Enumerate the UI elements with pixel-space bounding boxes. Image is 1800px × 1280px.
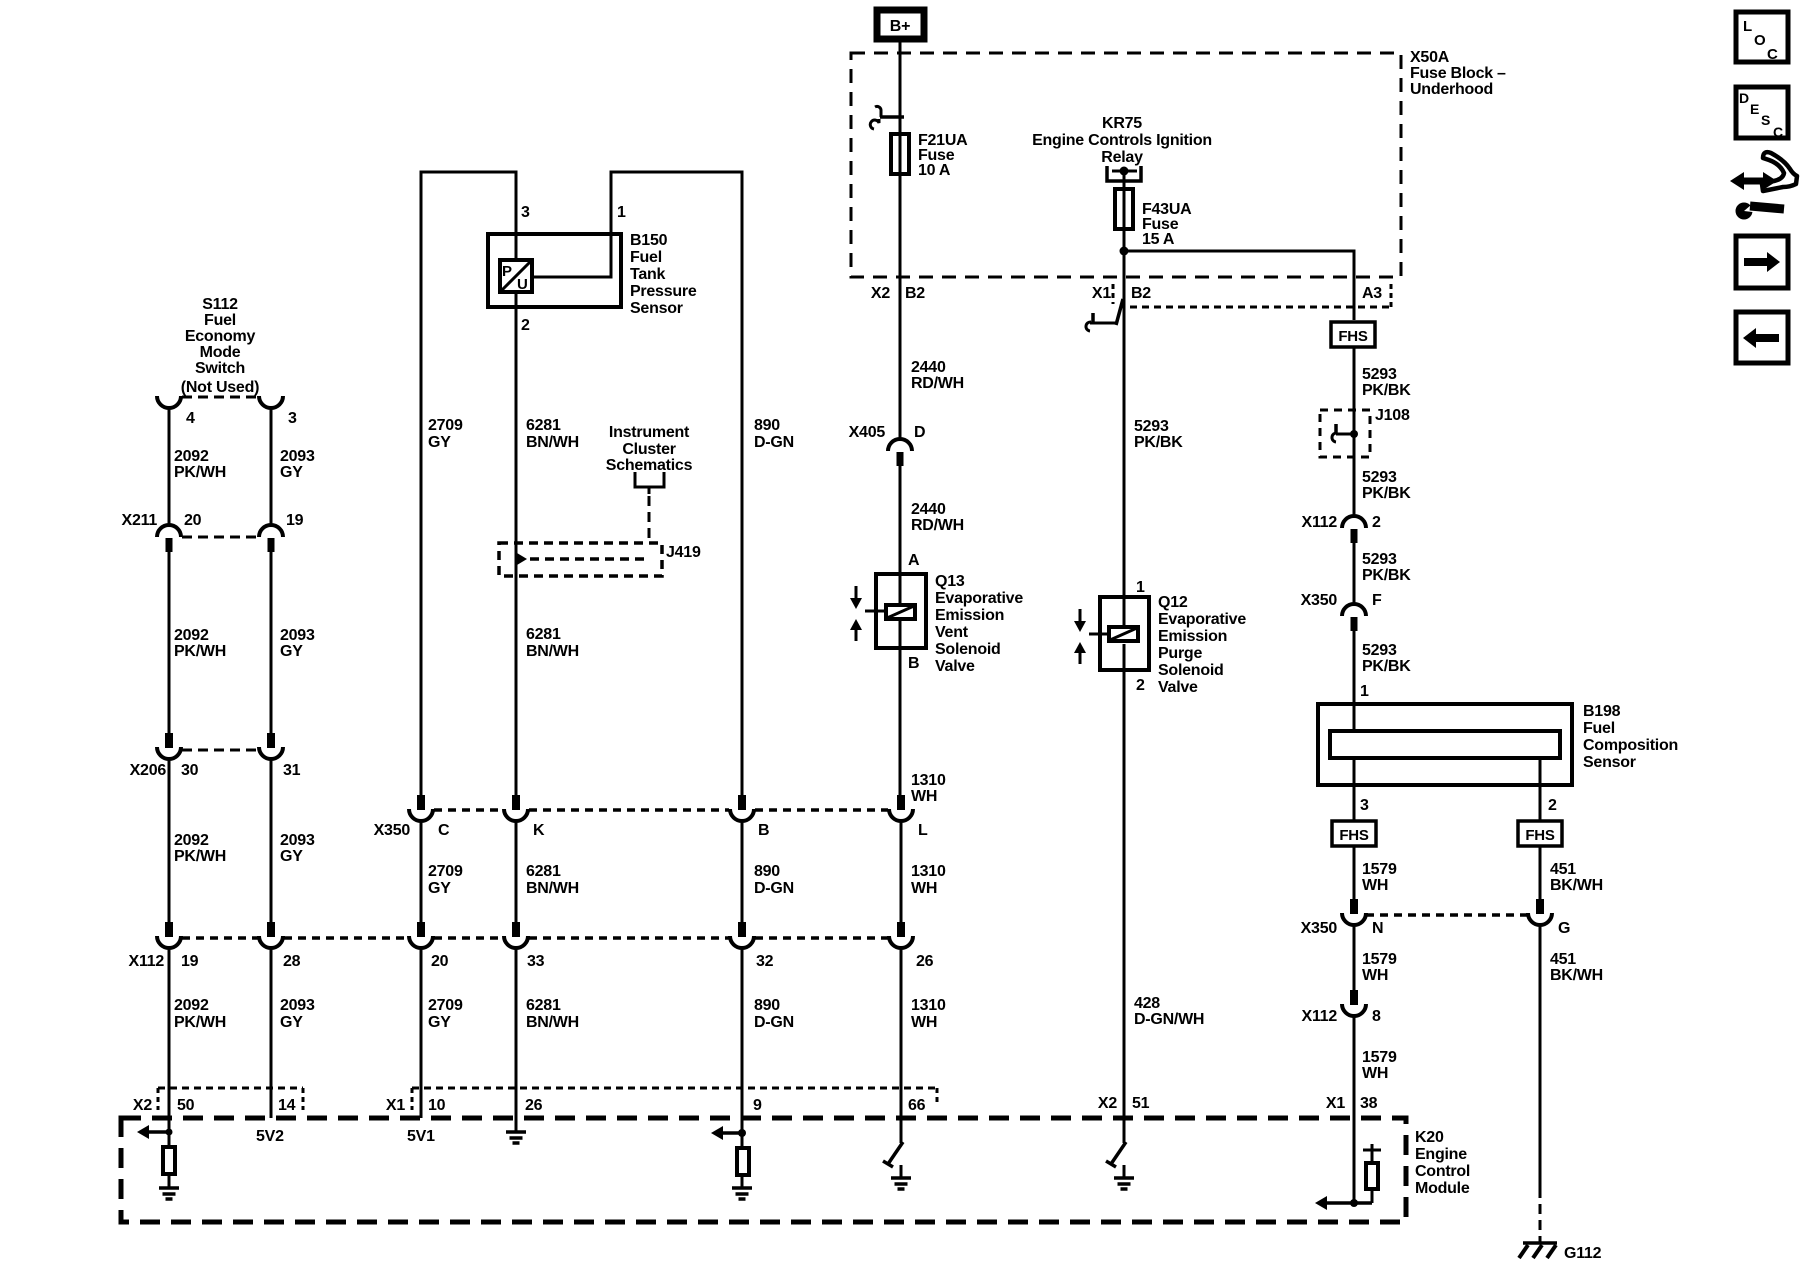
svg-text:GY: GY <box>280 643 303 660</box>
svg-text:Sensor: Sensor <box>1583 754 1636 771</box>
svg-text:BN/WH: BN/WH <box>526 434 579 451</box>
svg-text:10 A: 10 A <box>918 162 951 179</box>
wire 2092 PK/WH seg1 <box>168 408 171 527</box>
connector X206 pin 31 <box>259 733 283 759</box>
wire 6281 BN/WH seg2 <box>515 821 518 922</box>
svg-text:BN/WH: BN/WH <box>526 643 579 660</box>
svg-text:K: K <box>533 822 545 839</box>
wire 2709 GY vertical with top bracket <box>421 172 516 795</box>
connector X112 pin 33 <box>504 922 528 948</box>
svg-text:D: D <box>914 424 925 441</box>
svg-text:Module: Module <box>1415 1180 1470 1197</box>
icon DESC box <box>1736 87 1788 140</box>
svg-text:X112: X112 <box>129 953 165 970</box>
connector X350 pin G <box>1528 899 1552 925</box>
fuse F21UA <box>891 134 909 174</box>
svg-text:WH: WH <box>1362 877 1388 894</box>
connector X206 pin 30 <box>157 733 181 759</box>
svg-text:6281: 6281 <box>526 417 561 434</box>
svg-text:B2: B2 <box>1131 285 1151 302</box>
wire 2092 PK/WH seg2 <box>168 552 171 733</box>
connector X350 pin F <box>1342 604 1366 631</box>
svg-text:L: L <box>918 822 928 839</box>
svg-text:X1: X1 <box>386 1097 405 1114</box>
wire B+ feed <box>899 39 902 174</box>
wire 451 dashed to ground <box>1539 1188 1542 1243</box>
svg-text:A3: A3 <box>1362 285 1382 302</box>
fusible link FHS left box <box>1332 821 1376 846</box>
switch S112 label <box>181 296 259 396</box>
svg-text:1310: 1310 <box>911 997 946 1014</box>
connector X112 row dotted line <box>182 936 888 940</box>
svg-text:2092: 2092 <box>174 448 209 465</box>
svg-text:WH: WH <box>911 1014 937 1031</box>
sensor B150 P/U box <box>500 260 532 293</box>
svg-text:5V1: 5V1 <box>407 1128 435 1145</box>
svg-text:19: 19 <box>286 512 304 529</box>
connector X350 N G dotted line <box>1366 913 1528 917</box>
svg-text:Cluster: Cluster <box>622 441 675 458</box>
connector X350 pin L <box>889 795 913 821</box>
svg-text:C: C <box>1773 124 1783 140</box>
svg-text:1310: 1310 <box>911 772 946 789</box>
svg-text:B: B <box>908 655 919 672</box>
svg-text:Vent: Vent <box>935 624 969 641</box>
wire 451 BK/WH seg1 <box>1539 846 1542 899</box>
connector X350 row dotted line <box>434 808 888 812</box>
svg-text:P: P <box>502 263 512 280</box>
svg-text:X350: X350 <box>374 822 411 839</box>
svg-text:Engine Controls Ignition: Engine Controls Ignition <box>1032 132 1212 149</box>
svg-text:50: 50 <box>177 1097 195 1114</box>
svg-text:890: 890 <box>754 863 780 880</box>
svg-text:Pressure: Pressure <box>630 283 697 300</box>
connector S112 pin 3 <box>259 396 283 408</box>
svg-text:C: C <box>438 822 450 839</box>
sensor B198 outer box <box>1318 704 1572 785</box>
svg-text:PK/BK: PK/BK <box>1362 658 1411 675</box>
svg-text:Economy: Economy <box>185 328 256 345</box>
switch S112 dashed outline <box>182 396 258 399</box>
svg-text:2092: 2092 <box>174 997 209 1014</box>
svg-text:1579: 1579 <box>1362 861 1397 878</box>
svg-text:X211: X211 <box>122 512 158 529</box>
svg-text:10: 10 <box>428 1097 446 1114</box>
svg-text:1579: 1579 <box>1362 951 1397 968</box>
svg-text:1: 1 <box>1360 683 1369 700</box>
svg-text:X2: X2 <box>133 1097 152 1114</box>
svg-text:31: 31 <box>283 762 301 779</box>
svg-text:3: 3 <box>1360 797 1369 814</box>
svg-text:14: 14 <box>278 1097 296 1114</box>
svg-text:X1: X1 <box>1326 1095 1345 1112</box>
ECM pin 26 ground <box>506 1118 526 1143</box>
svg-text:FHS: FHS <box>1525 827 1554 844</box>
connector X112 pin 32 <box>730 922 754 948</box>
svg-text:GY: GY <box>280 1014 303 1031</box>
svg-text:X405: X405 <box>849 424 886 441</box>
icon wiring route with wrench <box>1730 152 1797 219</box>
svg-text:26: 26 <box>916 953 934 970</box>
fuse block strip dotted line <box>1130 306 1390 309</box>
solenoid valve Q13 <box>850 574 926 648</box>
svg-text:26: 26 <box>525 1097 543 1114</box>
svg-text:Fuel: Fuel <box>630 249 662 266</box>
svg-text:X2: X2 <box>871 285 890 302</box>
svg-text:890: 890 <box>754 997 780 1014</box>
connector X112 pin 20 <box>409 922 433 948</box>
svg-text:5293: 5293 <box>1362 551 1397 568</box>
svg-text:PK/BK: PK/BK <box>1362 485 1411 502</box>
svg-text:Instrument: Instrument <box>609 424 690 441</box>
wire 1310 WH seg2 <box>900 821 903 922</box>
svg-text:20: 20 <box>431 953 449 970</box>
svg-text:428: 428 <box>1134 995 1160 1012</box>
connector S112 pin 4 <box>157 396 181 408</box>
svg-text:Fuse Block –: Fuse Block – <box>1410 65 1506 82</box>
svg-text:D-GN: D-GN <box>754 880 794 897</box>
wire branch to A3 <box>1124 251 1354 320</box>
svg-text:890: 890 <box>754 417 780 434</box>
splice J108 symbol <box>1332 424 1358 442</box>
svg-text:B150: B150 <box>630 232 668 249</box>
connector X350 pin N <box>1342 899 1366 925</box>
svg-text:5V2: 5V2 <box>256 1128 284 1145</box>
wire B198 pin 3 <box>1353 758 1356 821</box>
svg-text:PK/BK: PK/BK <box>1134 434 1183 451</box>
svg-text:B: B <box>758 822 769 839</box>
svg-text:32: 32 <box>756 953 774 970</box>
svg-text:RD/WH: RD/WH <box>911 517 964 534</box>
svg-text:X206: X206 <box>130 762 167 779</box>
svg-text:PK/BK: PK/BK <box>1362 382 1411 399</box>
connector X350 pin K <box>504 795 528 821</box>
relay contact at X1 B2 <box>1086 299 1123 331</box>
svg-text:38: 38 <box>1360 1095 1378 1112</box>
connector X112 pin 2 <box>1342 516 1366 543</box>
icon LOC box <box>1736 12 1788 63</box>
icon forward arrow box <box>1736 236 1788 288</box>
sensor B198 inner box <box>1330 731 1560 758</box>
svg-text:6281: 6281 <box>526 997 561 1014</box>
svg-text:Solenoid: Solenoid <box>935 641 1001 658</box>
svg-text:C: C <box>1767 46 1778 63</box>
svg-text:451: 451 <box>1550 951 1576 968</box>
svg-text:5293: 5293 <box>1362 469 1397 486</box>
solenoid valve Q12 <box>1074 597 1149 670</box>
svg-text:S: S <box>1761 112 1770 128</box>
svg-text:A: A <box>908 552 920 569</box>
svg-text:2: 2 <box>1548 797 1557 814</box>
solenoid Q12 label <box>1158 594 1246 696</box>
svg-text:5293: 5293 <box>1362 366 1397 383</box>
svg-text:GY: GY <box>428 434 451 451</box>
wire 2093 GY seg2 <box>270 552 273 733</box>
svg-text:BK/WH: BK/WH <box>1550 967 1603 984</box>
svg-text:WH: WH <box>911 788 937 805</box>
svg-text:2093: 2093 <box>280 448 315 465</box>
wire 5293 PK/BK seg1 <box>1353 347 1356 518</box>
svg-text:4: 4 <box>186 410 195 427</box>
connector X112 pin 19 <box>157 922 181 948</box>
ECM pin 50 internal: arrow, resistor, ground <box>137 1125 179 1199</box>
svg-text:E: E <box>1750 101 1759 117</box>
svg-text:6281: 6281 <box>526 863 561 880</box>
svg-text:451: 451 <box>1550 861 1576 878</box>
wire 2709 GY seg2 <box>420 821 423 922</box>
svg-text:PK/WH: PK/WH <box>174 1014 226 1031</box>
svg-text:Evaporative: Evaporative <box>1158 611 1246 628</box>
svg-text:PK/WH: PK/WH <box>174 643 226 660</box>
connector X350 pin C <box>409 795 433 821</box>
fuse block X50A label <box>1410 49 1506 98</box>
connector X206 dashed line <box>182 749 258 752</box>
splice pack J419 dashed box <box>499 543 662 576</box>
power B+ box <box>877 10 924 39</box>
svg-text:2440: 2440 <box>911 359 946 376</box>
wire 2440 RD/WH lower <box>899 466 902 605</box>
svg-text:N: N <box>1372 920 1383 937</box>
svg-text:PK/WH: PK/WH <box>174 848 226 865</box>
wire 451 BK/WH seg2 <box>1539 925 1542 1188</box>
fuse F21UA label <box>918 132 968 179</box>
connector X350 pin B <box>730 795 754 821</box>
wire 2093 GY seg3 <box>270 759 273 922</box>
svg-text:J419: J419 <box>666 544 701 561</box>
wire F21UA to X405 <box>899 134 902 441</box>
svg-text:2092: 2092 <box>174 627 209 644</box>
svg-text:Emission: Emission <box>935 607 1004 624</box>
wire 890 D-GN seg2 <box>741 821 744 922</box>
svg-text:Solenoid: Solenoid <box>1158 662 1224 679</box>
fusible link FHS right box <box>1518 821 1562 846</box>
svg-text:GY: GY <box>280 848 303 865</box>
svg-text:X350: X350 <box>1301 592 1338 609</box>
svg-text:20: 20 <box>184 512 202 529</box>
junction dot below F43UA <box>1120 247 1129 256</box>
svg-text:30: 30 <box>181 762 199 779</box>
wire 2093 GY seg1 <box>270 408 273 527</box>
svg-text:Switch: Switch <box>195 360 245 377</box>
svg-text:BN/WH: BN/WH <box>526 1014 579 1031</box>
wire 2092 PK/WH seg4 <box>168 948 171 1132</box>
ECM pin 38 internal: arrow and pull-up resistor <box>1315 1144 1381 1210</box>
svg-text:B198: B198 <box>1583 703 1621 720</box>
svg-text:Schematics: Schematics <box>606 457 693 474</box>
wire 1310 WH seg3 <box>900 948 903 1143</box>
svg-text:Underhood: Underhood <box>1410 81 1493 98</box>
wire 6281 BN/WH below sensor <box>515 294 518 795</box>
svg-text:WH: WH <box>1362 1065 1388 1082</box>
svg-text:D-GN: D-GN <box>754 1014 794 1031</box>
svg-text:Fuel: Fuel <box>1583 720 1615 737</box>
svg-text:2093: 2093 <box>280 997 315 1014</box>
svg-text:BK/WH: BK/WH <box>1550 877 1603 894</box>
svg-text:RD/WH: RD/WH <box>911 375 964 392</box>
svg-text:2709: 2709 <box>428 863 463 880</box>
fuse F43UA <box>1115 189 1133 229</box>
svg-text:Mode: Mode <box>200 344 241 361</box>
wire Q13 to X350 L <box>899 621 902 795</box>
svg-text:66: 66 <box>908 1097 926 1114</box>
svg-text:X112: X112 <box>1302 1008 1338 1025</box>
svg-text:X1: X1 <box>1092 285 1111 302</box>
svg-text:Valve: Valve <box>935 658 975 675</box>
svg-text:2440: 2440 <box>911 501 946 518</box>
wire F43UA down to Q12 <box>1123 189 1126 626</box>
ECM pin 51 switch and ground <box>1106 1142 1134 1189</box>
solenoid Q13 label <box>935 573 1023 675</box>
relay KR75 label <box>1032 115 1212 166</box>
svg-text:GY: GY <box>428 1014 451 1031</box>
svg-text:D: D <box>1739 90 1749 106</box>
connector X211 pin 19 <box>259 525 283 552</box>
svg-text:33: 33 <box>527 953 545 970</box>
svg-text:GY: GY <box>280 464 303 481</box>
wire 2093 GY seg4 <box>270 948 273 1118</box>
wire B198 pin 2 <box>1539 758 1542 821</box>
svg-text:51: 51 <box>1132 1095 1150 1112</box>
svg-text:Valve: Valve <box>1158 679 1198 696</box>
svg-text:B2: B2 <box>905 285 925 302</box>
svg-text:FHS: FHS <box>1339 827 1368 844</box>
connector X112 pin 8 <box>1342 990 1366 1016</box>
relay contact arm above F21UA <box>870 106 904 129</box>
ECM pin 66 switch and ground <box>883 1142 911 1189</box>
svg-text:6281: 6281 <box>526 626 561 643</box>
svg-text:Purge: Purge <box>1158 645 1202 662</box>
svg-text:Composition: Composition <box>1583 737 1678 754</box>
svg-text:BN/WH: BN/WH <box>526 880 579 897</box>
splice J108 dashed box <box>1320 410 1370 457</box>
svg-text:Engine: Engine <box>1415 1146 1467 1163</box>
svg-text:Sensor: Sensor <box>630 300 683 317</box>
svg-text:1: 1 <box>1136 579 1145 596</box>
svg-text:1: 1 <box>617 204 626 221</box>
connector X2 ECM strip <box>158 1087 303 1090</box>
svg-text:X350: X350 <box>1301 920 1338 937</box>
wire 2709 GY seg3 <box>420 948 423 1118</box>
connector X112 pin 26 <box>889 922 913 948</box>
svg-text:15 A: 15 A <box>1142 231 1175 248</box>
svg-text:2093: 2093 <box>280 627 315 644</box>
wire 5293 PK/BK seg4 <box>1353 631 1356 731</box>
svg-text:Q12: Q12 <box>1158 594 1188 611</box>
wire 6281 BN/WH seg3 <box>515 948 518 1118</box>
ECM K20 dashed box <box>121 1118 1406 1222</box>
svg-text:8: 8 <box>1372 1008 1381 1025</box>
connector X405 pin D <box>888 439 912 466</box>
svg-text:X50A: X50A <box>1410 49 1450 66</box>
svg-text:L: L <box>1743 18 1752 35</box>
svg-text:G: G <box>1558 920 1570 937</box>
svg-text:B+: B+ <box>890 18 910 35</box>
fuse block X50A dashed box <box>851 53 1401 277</box>
svg-text:2: 2 <box>1372 514 1381 531</box>
svg-text:G112: G112 <box>1564 1245 1602 1262</box>
svg-text:1579: 1579 <box>1362 1049 1397 1066</box>
svg-text:PK/WH: PK/WH <box>174 464 226 481</box>
wire 1579 WH seg2 <box>1353 925 1356 990</box>
wire 1579 WH seg1 <box>1353 846 1356 899</box>
svg-text:2709: 2709 <box>428 417 463 434</box>
svg-text:U: U <box>517 276 528 293</box>
svg-text:28: 28 <box>283 953 301 970</box>
wire KR75 to F43UA <box>1123 171 1126 229</box>
ECM K20 label <box>1415 1129 1470 1197</box>
svg-text:S112: S112 <box>202 296 238 313</box>
wire 2092 PK/WH seg3 <box>168 759 171 922</box>
svg-text:5293: 5293 <box>1134 418 1169 435</box>
connector X211 dashed line <box>182 536 258 539</box>
svg-text:9: 9 <box>753 1097 762 1114</box>
svg-text:Control: Control <box>1415 1163 1470 1180</box>
svg-text:3: 3 <box>521 204 530 221</box>
svg-text:F: F <box>1372 592 1382 609</box>
ECM pin 9 internal: arrow, resistor, ground <box>711 1126 752 1199</box>
fusible link FHS top box <box>1331 322 1375 347</box>
svg-text:19: 19 <box>181 953 199 970</box>
svg-text:D-GN/WH: D-GN/WH <box>1134 1011 1204 1028</box>
svg-text:2092: 2092 <box>174 832 209 849</box>
wire 890 D-GN seg3 <box>741 948 744 1133</box>
ground G112 chassis symbol <box>1519 1243 1557 1258</box>
svg-text:Tank: Tank <box>630 266 666 283</box>
svg-text:J108: J108 <box>1375 407 1410 424</box>
svg-text:O: O <box>1754 32 1766 49</box>
fuse F43UA label <box>1142 201 1192 248</box>
svg-text:(Not Used): (Not Used) <box>181 379 259 396</box>
connector X211 pin 20 <box>157 525 181 552</box>
svg-text:X2: X2 <box>1098 1095 1117 1112</box>
note Instrument Cluster Schematics <box>606 424 693 543</box>
svg-text:X112: X112 <box>1302 514 1338 531</box>
svg-text:D-GN: D-GN <box>754 434 794 451</box>
svg-text:Evaporative: Evaporative <box>935 590 1023 607</box>
wire 890 D-GN vertical with top bracket <box>534 172 742 795</box>
svg-text:2709: 2709 <box>428 997 463 1014</box>
svg-text:GY: GY <box>428 880 451 897</box>
svg-text:Relay: Relay <box>1101 149 1143 166</box>
wire Q12 to X2 51 <box>1123 644 1126 1143</box>
svg-text:2093: 2093 <box>280 832 315 849</box>
svg-text:2: 2 <box>1136 677 1145 694</box>
svg-text:FHS: FHS <box>1338 328 1367 345</box>
svg-text:K20: K20 <box>1415 1129 1444 1146</box>
svg-text:3: 3 <box>288 410 297 427</box>
sensor B150 box <box>488 234 621 307</box>
svg-text:5293: 5293 <box>1362 642 1397 659</box>
svg-text:Emission: Emission <box>1158 628 1227 645</box>
sensor B198 label <box>1583 703 1678 771</box>
svg-text:KR75: KR75 <box>1102 115 1142 132</box>
svg-text:2: 2 <box>521 317 530 334</box>
wire 5293 PK/BK seg3 <box>1353 543 1356 606</box>
svg-text:WH: WH <box>911 880 937 897</box>
svg-text:Q13: Q13 <box>935 573 965 590</box>
svg-text:PK/BK: PK/BK <box>1362 567 1411 584</box>
icon back arrow box <box>1736 312 1788 363</box>
svg-text:1310: 1310 <box>911 863 946 880</box>
sensor B150 label <box>630 232 697 317</box>
connector X1 ECM strip <box>412 1087 937 1090</box>
connector X112 pin 28 <box>259 922 283 948</box>
relay KR75 contact symbol <box>1107 166 1141 181</box>
wire 1579 WH seg3 <box>1353 1016 1356 1203</box>
splice J419 arrow and link <box>517 553 527 565</box>
svg-text:Fuel: Fuel <box>204 312 236 329</box>
svg-text:WH: WH <box>1362 967 1388 984</box>
